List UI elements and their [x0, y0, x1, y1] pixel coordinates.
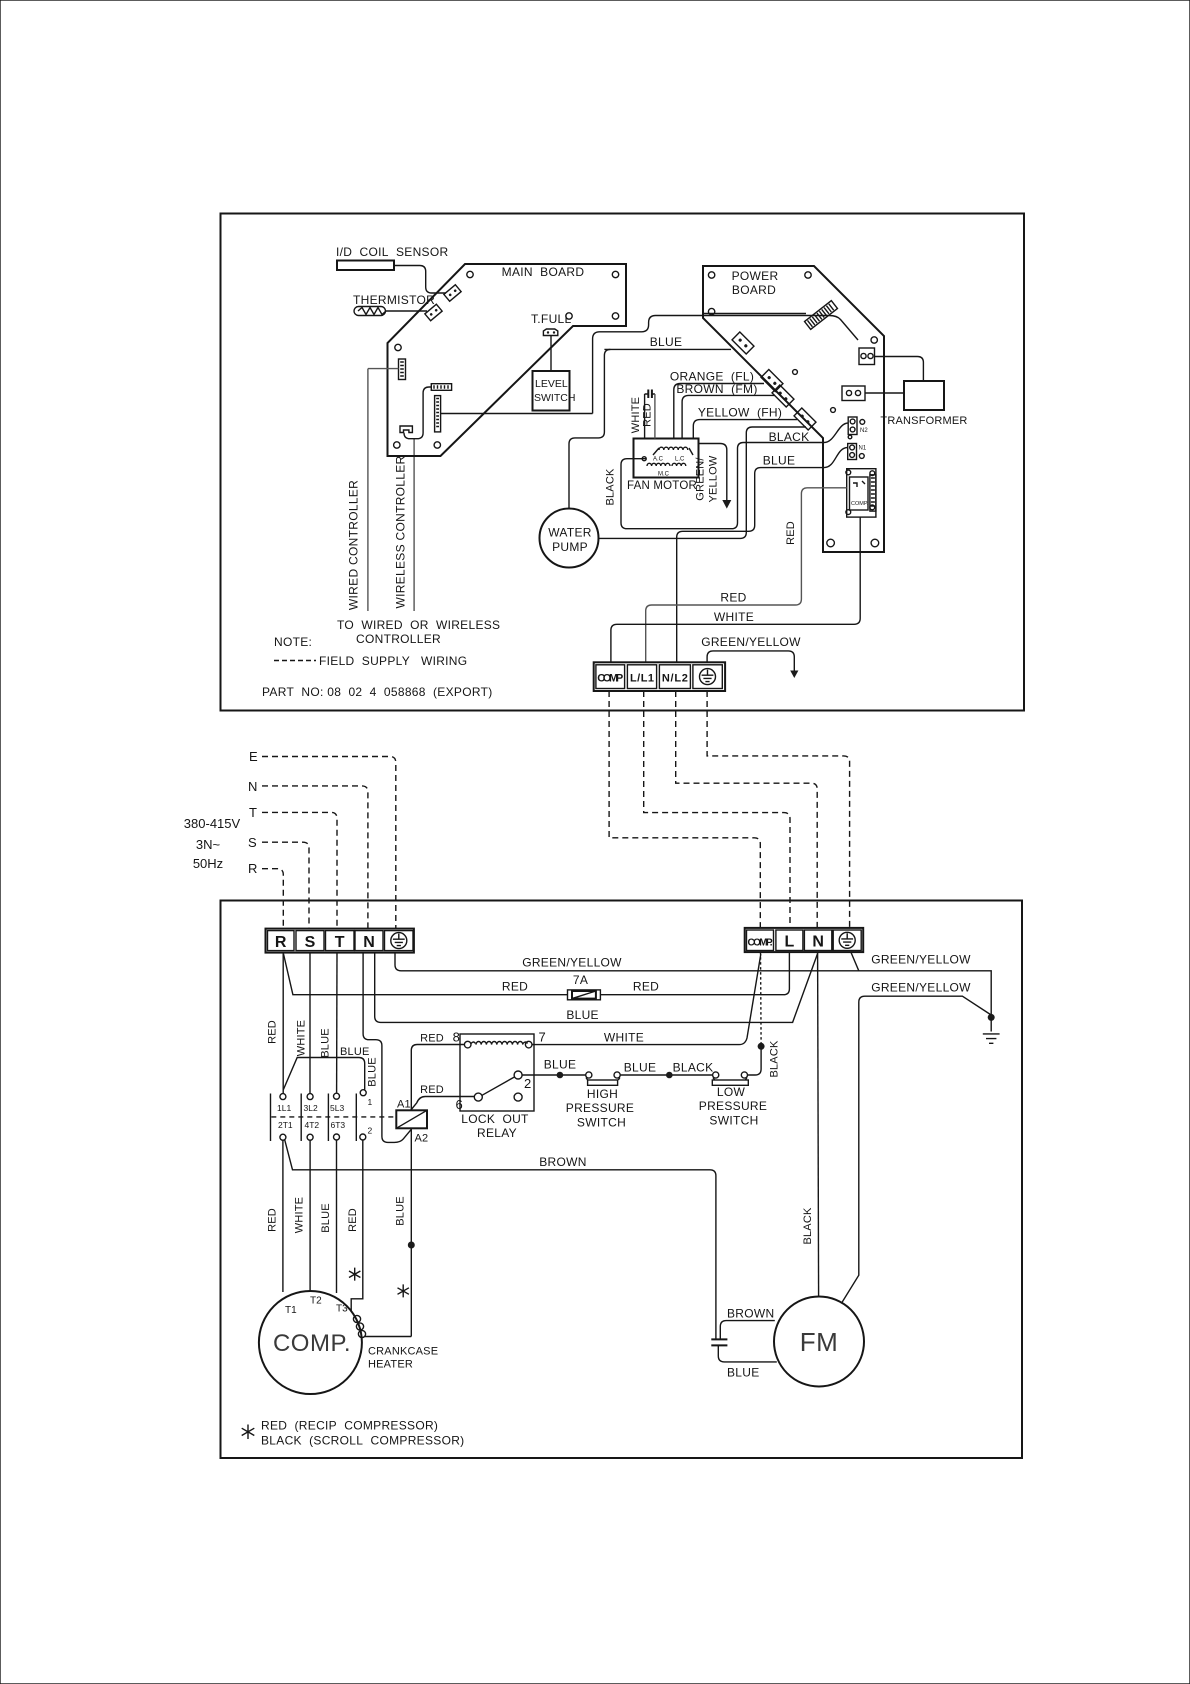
wire T.FULL to level switch	[550, 336, 552, 372]
svg-text:GREEN/YELLOW: GREEN/YELLOW	[701, 635, 801, 649]
svg-text:POWER: POWER	[732, 269, 779, 283]
svg-text:M.C: M.C	[658, 472, 670, 478]
svg-text:BLUE: BLUE	[320, 1203, 332, 1233]
svg-text:7: 7	[539, 1030, 546, 1045]
connector N2	[848, 417, 868, 435]
wire red fan-cap	[642, 394, 655, 439]
level switch LS	[533, 371, 576, 411]
wire N to coil A2 branch	[363, 953, 411, 1143]
svg-text:CONTROLLER: CONTROLLER	[356, 632, 441, 646]
svg-text:N/L2: N/L2	[662, 673, 688, 685]
note star legend	[242, 1419, 465, 1448]
node heater junction	[408, 1242, 415, 1249]
svg-text:BLUE: BLUE	[544, 1058, 577, 1072]
svg-text:7A: 7A	[573, 973, 588, 987]
wire brown FM to capacitor	[720, 1307, 775, 1340]
wire CN-wireless loop	[404, 387, 431, 439]
ground symbol	[983, 1017, 1000, 1043]
svg-text:BROWN: BROWN	[727, 1307, 775, 1321]
svg-text:T: T	[335, 934, 345, 951]
svg-text:TRANSFORMER: TRANSFORMER	[880, 415, 967, 427]
svg-text:MAIN BOARD: MAIN BOARD	[502, 265, 585, 279]
wire red fused R to L	[283, 952, 789, 995]
svg-text:WIRELESS CONTROLLER: WIRELESS CONTROLLER	[394, 455, 408, 608]
node earth junction	[988, 1014, 995, 1021]
svg-text:WHITE: WHITE	[296, 1020, 308, 1056]
wire blue-black between switches	[620, 1061, 713, 1076]
wire 4T2 to compressor T2	[294, 1140, 311, 1290]
svg-text:2T1: 2T1	[278, 1120, 293, 1130]
svg-text:N1: N1	[859, 446, 867, 452]
wire level-switch bus	[441, 413, 593, 415]
svg-text:1: 1	[368, 1097, 373, 1107]
svg-text:6T3: 6T3	[331, 1120, 346, 1130]
wire blue N to N	[375, 953, 818, 1023]
field wiring dashed COMP	[609, 691, 760, 928]
svg-text:S: S	[305, 934, 316, 951]
svg-text:LEVEL: LEVEL	[535, 378, 568, 390]
earth symbol XT2	[391, 933, 407, 949]
low pressure switch	[699, 1072, 767, 1128]
svg-text:BLACK (SCROLL COMPRESSOR): BLACK (SCROLL COMPRESSOR)	[261, 1434, 464, 1448]
high pressure switch	[566, 1072, 634, 1130]
svg-text:HIGH: HIGH	[587, 1087, 618, 1101]
wire 6T3 to compressor T3	[320, 1140, 337, 1293]
svg-text:WHITE: WHITE	[294, 1197, 306, 1233]
svg-text:T: T	[249, 805, 257, 820]
wire green/yellow earth arrow	[701, 635, 801, 678]
svg-text:A.C: A.C	[653, 457, 664, 463]
svg-text:L/L1: L/L1	[630, 673, 654, 685]
supply line R	[248, 861, 283, 928]
svg-text:T.FULL: T.FULL	[531, 312, 572, 326]
wire black fan to power board	[605, 430, 824, 529]
capacitor FM run	[711, 1339, 727, 1345]
svg-text:COMP.: COMP.	[851, 501, 869, 507]
wire water pump to blue line	[569, 349, 610, 508]
svg-text:BLUE: BLUE	[566, 1008, 599, 1022]
svg-text:BROWN: BROWN	[539, 1155, 587, 1169]
label TO WIRED OR WIRELESS CONTROLLER	[337, 618, 500, 646]
svg-text:PART NO: 08 02 4 058868 (: PART NO: 08 02 4 058868 (EXPORT)	[262, 685, 493, 699]
svg-text:HEATER: HEATER	[368, 1359, 413, 1371]
svg-text:COMP.: COMP.	[748, 938, 773, 949]
enclosure box indoor-unit	[221, 214, 1025, 711]
svg-text:WATER: WATER	[548, 526, 592, 540]
svg-text:RED: RED	[502, 980, 528, 994]
contactor coil A1 A2	[396, 1099, 428, 1145]
wire coil A1 to relay pin8	[411, 1030, 464, 1111]
wire N2 to board edge	[824, 423, 848, 443]
wire orange FL	[670, 370, 764, 439]
wire green/yellow fan earth	[695, 444, 732, 509]
connector CN-transformer-top	[859, 348, 875, 365]
star marker wire4	[349, 1268, 360, 1281]
relay coil	[464, 1030, 545, 1048]
connector diag ORANGE	[761, 370, 783, 392]
svg-text:WHITE: WHITE	[604, 1031, 644, 1045]
wire aux 2 to crankcase heater	[347, 1140, 363, 1311]
svg-text:FIELD SUPPLY WIRING: FIELD SUPPLY WIRING	[319, 654, 467, 668]
wire wired-controller drop	[347, 369, 368, 611]
svg-text:RED: RED	[267, 1020, 279, 1044]
wire T to contactor	[320, 953, 338, 1093]
wire green/yellow earth bus	[395, 953, 991, 1015]
svg-text:1L1: 1L1	[277, 1103, 291, 1113]
svg-text:L: L	[785, 934, 795, 951]
svg-text:N: N	[248, 779, 257, 794]
water pump M	[540, 509, 599, 568]
svg-text:BLUE: BLUE	[340, 1046, 370, 1058]
svg-text:6: 6	[456, 1097, 463, 1112]
svg-text:3L2: 3L2	[304, 1103, 318, 1113]
connector N1	[848, 444, 867, 460]
svg-text:GREEN/YELLOW: GREEN/YELLOW	[871, 981, 971, 995]
main board outline	[388, 264, 627, 456]
wire CN-wired to left	[368, 368, 399, 370]
relay contact pins	[474, 1071, 531, 1101]
svg-text:BLUE: BLUE	[320, 1028, 332, 1058]
svg-text:380-415V: 380-415V	[184, 816, 241, 831]
svg-text:BLACK: BLACK	[769, 430, 810, 444]
connector hatched on power board	[805, 301, 838, 330]
svg-text:3N~: 3N~	[196, 837, 221, 852]
svg-text:BLUE: BLUE	[395, 1196, 407, 1226]
wire white pin7 to COMP terminal	[532, 954, 761, 1045]
svg-text:4T2: 4T2	[305, 1120, 320, 1130]
svg-text:BLACK: BLACK	[673, 1061, 714, 1075]
fan motor FM1	[627, 439, 698, 493]
field supply dash sample	[274, 660, 316, 662]
mounting holes main board	[394, 271, 619, 448]
svg-text:BROWN (FM): BROWN (FM)	[676, 382, 757, 396]
svg-text:RED: RED	[633, 980, 659, 994]
wire S to contactor	[296, 953, 311, 1094]
note legend	[262, 635, 493, 699]
connector CN-wired	[399, 359, 406, 380]
svg-text:BLUE: BLUE	[367, 1057, 379, 1087]
svg-text:NOTE:: NOTE:	[274, 635, 312, 649]
wire green/yellow to FM	[841, 981, 991, 1304]
svg-text:I/D COIL SENSOR: I/D COIL SENSOR	[336, 245, 448, 259]
svg-text:YELLOW: YELLOW	[708, 455, 720, 502]
svg-text:SWITCH: SWITCH	[577, 1116, 626, 1130]
svg-text:L.C: L.C	[675, 457, 685, 463]
svg-text:N: N	[812, 934, 824, 951]
svg-text:SWITCH: SWITCH	[534, 392, 575, 404]
I/D coil sensor	[336, 245, 448, 270]
wire earth XT3 branch	[851, 952, 859, 971]
wire blue to N/L2	[677, 454, 823, 663]
svg-text:BLACK: BLACK	[802, 1207, 814, 1245]
pin marker circles power board	[793, 370, 852, 439]
svg-text:T2: T2	[310, 1296, 322, 1307]
wire black N to FM	[802, 952, 819, 1297]
svg-text:RED: RED	[420, 1084, 444, 1096]
svg-text:N2: N2	[860, 428, 868, 434]
connector diag BROWN	[772, 385, 794, 407]
svg-text:S: S	[248, 835, 257, 850]
field wiring dashed L/L1	[644, 691, 790, 928]
connector CN-disp-horiz	[431, 384, 451, 391]
svg-text:BLUE: BLUE	[727, 1366, 760, 1380]
svg-text:2: 2	[524, 1076, 531, 1091]
mounting holes power board	[708, 272, 878, 547]
wire red relay to L/L1	[646, 488, 847, 662]
svg-text:5L3: 5L3	[330, 1103, 344, 1113]
wire sensor to board connector	[394, 266, 446, 294]
connector CN-transformer-2	[842, 386, 865, 401]
svg-text:RED: RED	[420, 1033, 444, 1045]
transformer T1	[880, 381, 967, 427]
svg-text:50Hz: 50Hz	[193, 856, 223, 871]
wire yellow FH	[693, 406, 797, 439]
supply line N	[248, 779, 368, 928]
svg-text:RED: RED	[347, 1208, 359, 1232]
svg-text:A2: A2	[415, 1133, 429, 1145]
supply line T	[249, 805, 337, 928]
wire N1 to board edge	[824, 448, 848, 468]
field wiring dashed earth	[707, 691, 850, 928]
wire wireless-controller drop	[394, 439, 415, 611]
svg-text:RED: RED	[720, 591, 746, 605]
wire water pump to relay	[599, 427, 807, 538]
wire thermistor to board connector	[386, 310, 428, 312]
svg-text:N: N	[363, 934, 375, 951]
earth symbol XT3	[839, 932, 855, 948]
supply line E	[249, 749, 396, 928]
svg-text:GREEN/: GREEN/	[695, 457, 707, 501]
svg-text:YELLOW (FH): YELLOW (FH)	[698, 406, 782, 420]
svg-text:LOW: LOW	[717, 1085, 746, 1099]
wire brown 2T1 to FM capacitor	[285, 1140, 716, 1340]
svg-text:E: E	[249, 749, 258, 764]
wire blue pin2 to high pressure switch	[522, 1058, 586, 1076]
compressor COMP	[259, 1291, 362, 1394]
fuse 7A	[568, 973, 601, 1000]
svg-text:RED (RECIP COMPRESSOR): RED (RECIP COMPRESSOR)	[261, 1419, 438, 1433]
svg-text:LOCK OUT: LOCK OUT	[461, 1112, 529, 1126]
svg-text:BLACK: BLACK	[605, 468, 617, 506]
connector diag YELLOW	[794, 408, 816, 430]
terminal strip XT1	[594, 662, 725, 691]
svg-text:WHITE: WHITE	[630, 397, 642, 433]
svg-text:FM: FM	[800, 1327, 839, 1357]
wire R to contactor	[267, 953, 284, 1094]
terminal strip XT2 R S T N E	[266, 929, 414, 953]
connector CN-sensor	[444, 285, 461, 302]
contactor linkage dashed	[271, 1116, 396, 1118]
supply label 380-415V 3N 50Hz	[184, 816, 241, 871]
svg-text:R: R	[275, 934, 287, 951]
svg-text:PRESSURE: PRESSURE	[566, 1101, 634, 1115]
wire blue main to power board	[604, 335, 731, 349]
svg-text:SWITCH: SWITCH	[709, 1114, 758, 1128]
wire 2T1 to compressor T1	[267, 1140, 283, 1292]
connector CN-thermistor	[425, 304, 442, 321]
svg-text:PRESSURE: PRESSURE	[699, 1099, 767, 1113]
wire to hatched connector	[703, 313, 806, 315]
node dot2	[666, 1072, 673, 1079]
svg-text:A1: A1	[397, 1099, 411, 1111]
fan motor windings	[642, 447, 693, 477]
earth symbol XT1	[700, 669, 716, 685]
wire white relay to COMP	[611, 517, 860, 662]
svg-text:PUMP: PUMP	[552, 540, 588, 554]
svg-text:COMP.: COMP.	[273, 1330, 351, 1357]
wire connector to transformer	[875, 357, 924, 382]
svg-text:BOARD: BOARD	[732, 283, 776, 297]
svg-text:WHITE: WHITE	[714, 610, 754, 624]
svg-text:BLUE: BLUE	[650, 335, 683, 349]
wire coil A2 to heater	[395, 1129, 412, 1337]
supply line S	[248, 835, 309, 928]
capacitor fan	[645, 390, 655, 399]
connector CN-disp-vert	[435, 396, 441, 432]
svg-text:WIRED CONTROLLER: WIRED CONTROLLER	[347, 480, 361, 610]
svg-text:BLUE: BLUE	[763, 454, 796, 468]
svg-text:RED: RED	[642, 403, 654, 427]
svg-text:GREEN/YELLOW: GREEN/YELLOW	[871, 953, 971, 967]
field wiring dashed N/L2	[676, 691, 818, 928]
svg-text:T3: T3	[336, 1304, 348, 1315]
wire level area to transformer connector	[593, 316, 858, 414]
svg-text:COMP: COMP	[597, 673, 623, 685]
svg-text:THERMISTOR: THERMISTOR	[353, 293, 435, 307]
star marker heater wire	[398, 1284, 409, 1297]
svg-text:TO WIRED OR WIRELESS: TO WIRED OR WIRELESS	[337, 618, 500, 632]
connector diag BLUE	[732, 332, 754, 354]
connector T.FULL	[531, 312, 572, 336]
connector CN-wireless	[400, 426, 412, 433]
svg-text:BLACK: BLACK	[769, 1040, 781, 1078]
svg-text:CRANKCASE: CRANKCASE	[368, 1346, 438, 1358]
svg-text:FAN MOTOR: FAN MOTOR	[627, 480, 697, 492]
wire brown FM	[676, 382, 775, 439]
svg-text:RED: RED	[267, 1208, 279, 1232]
label POWER BOARD	[732, 269, 779, 297]
thermistor	[353, 293, 435, 316]
lock out relay K1	[460, 1034, 534, 1140]
svg-text:2: 2	[368, 1126, 373, 1136]
terminal strip XT3 COMP L N E	[745, 928, 864, 952]
fan motor FM	[774, 1297, 864, 1387]
wire blue capacitor to FM	[718, 1345, 777, 1379]
wire white fan-cap	[630, 394, 645, 439]
wire crankcase heater to A2 drop	[365, 1336, 412, 1338]
node dot1	[557, 1072, 564, 1079]
svg-text:GREEN/YELLOW: GREEN/YELLOW	[522, 956, 622, 970]
enclosure box outdoor-unit	[221, 901, 1023, 1459]
wire black low PS to COMP terminal	[748, 952, 781, 1077]
node dot3	[758, 1043, 765, 1050]
svg-text:8: 8	[453, 1030, 460, 1045]
svg-text:RELAY: RELAY	[477, 1126, 517, 1140]
svg-text:R: R	[248, 861, 257, 876]
svg-text:BLUE: BLUE	[624, 1061, 657, 1075]
wire coil A1 to relay pin6	[411, 1084, 474, 1112]
svg-text:T1: T1	[285, 1305, 297, 1316]
wire connector2 to transformer	[865, 392, 904, 394]
contactor KM1 poles	[271, 1090, 373, 1141]
crankcase heater coil	[353, 1315, 438, 1370]
svg-text:RED: RED	[785, 521, 797, 545]
power board outline	[703, 266, 884, 552]
relay COMP on power board	[846, 469, 876, 517]
wire aux contact 1 feed	[283, 1046, 369, 1090]
